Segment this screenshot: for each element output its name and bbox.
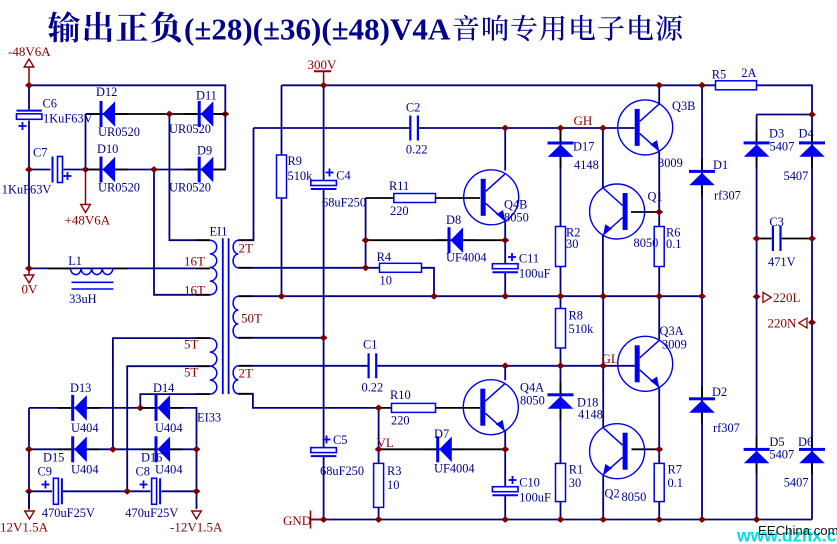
wire R11 corner xyxy=(365,198,367,268)
svg-text:R1: R1 xyxy=(569,463,583,477)
diode D6 xyxy=(784,435,825,490)
wire D12 col down xyxy=(169,114,209,240)
capacitor C11 xyxy=(492,252,550,281)
svg-text:D3: D3 xyxy=(769,127,784,141)
svg-text:C1: C1 xyxy=(363,338,377,352)
svg-text:10: 10 xyxy=(387,478,399,492)
wire D18 R1 col xyxy=(560,366,562,520)
transistor Q1 xyxy=(590,184,663,250)
svg-text:1KuF63V: 1KuF63V xyxy=(43,112,93,126)
svg-text:VL: VL xyxy=(377,435,394,450)
diode D13 xyxy=(58,381,99,435)
wire 2T2 bottom jog xyxy=(238,394,378,408)
svg-text:C2: C2 xyxy=(406,101,420,115)
svg-text:10: 10 xyxy=(380,274,392,288)
junction gnd-D2 xyxy=(698,516,706,523)
diode D1 xyxy=(689,158,741,203)
svg-text:EEChina.com: EEChina.com xyxy=(758,523,837,538)
svg-text:0.22: 0.22 xyxy=(406,143,428,157)
svg-text:100uF: 100uF xyxy=(519,491,551,505)
junction C3-left xyxy=(753,235,761,242)
diode D2 xyxy=(689,385,740,435)
wire Q1 collector col xyxy=(602,128,604,188)
power 12V1.5A xyxy=(0,491,49,534)
wire C3 row a xyxy=(757,238,772,240)
svg-text:5407: 5407 xyxy=(784,169,809,183)
svg-text:GL: GL xyxy=(602,351,619,366)
capacitor C6 xyxy=(17,97,93,131)
junction gnd-Q2E xyxy=(599,516,607,523)
svg-text:68uF250: 68uF250 xyxy=(322,196,366,210)
diode D9 xyxy=(169,144,226,195)
svg-text:(±28)(±36)(±48)V4A: (±28)(±36)(±48)V4A xyxy=(184,12,451,47)
diode D4 xyxy=(784,127,826,184)
junction R4-left xyxy=(362,264,370,271)
svg-text:300V: 300V xyxy=(308,57,338,72)
wire 2T bottom to R4 xyxy=(238,268,434,296)
junction bus-R4 xyxy=(430,293,438,300)
junction 50T-C4 xyxy=(320,334,328,341)
svg-text:5407: 5407 xyxy=(770,140,795,154)
diode D10 xyxy=(87,142,141,195)
wire GL row a xyxy=(238,365,367,367)
junction C9-C8 xyxy=(123,488,131,495)
svg-text:D11: D11 xyxy=(196,89,217,103)
wire Q1 base wire xyxy=(631,211,659,213)
wire top bus left xyxy=(29,85,225,169)
svg-text:R9: R9 xyxy=(288,154,302,168)
wire right D3 col xyxy=(756,115,758,520)
junction gnd-R1 xyxy=(557,516,565,523)
wire 5T bot stub xyxy=(140,394,210,408)
wire Q4A collector xyxy=(504,366,506,380)
svg-text:0.1: 0.1 xyxy=(668,476,684,490)
svg-text:33uH: 33uH xyxy=(69,292,97,306)
svg-text:C5: C5 xyxy=(333,433,347,447)
net flag 220L xyxy=(763,290,801,305)
wire C3 row b xyxy=(782,238,812,240)
svg-text:510k: 510k xyxy=(288,169,314,183)
junction VL-D7 xyxy=(501,446,509,453)
junction GL-D18 xyxy=(557,362,565,369)
junction GH-D17 xyxy=(557,125,565,132)
wire C7 D10 D9 row a xyxy=(29,169,51,171)
svg-text:2T: 2T xyxy=(239,366,254,381)
svg-text:510k: 510k xyxy=(569,322,595,336)
junction 300V xyxy=(320,82,328,89)
svg-text:100uF: 100uF xyxy=(519,267,551,281)
svg-text:220: 220 xyxy=(390,204,409,218)
diode D18 xyxy=(548,382,603,421)
junction bus-D1 xyxy=(698,293,706,300)
svg-text:D1: D1 xyxy=(713,158,728,172)
svg-text:C10: C10 xyxy=(519,476,540,490)
capacitor C7 xyxy=(2,146,72,197)
wire D10 col down xyxy=(154,170,210,295)
power 0V xyxy=(22,268,39,296)
svg-text:4148: 4148 xyxy=(578,408,603,422)
svg-text:Q2: Q2 xyxy=(605,487,620,501)
resistor R2 xyxy=(556,226,581,267)
diode D8 xyxy=(435,213,487,265)
svg-text:UR0520: UR0520 xyxy=(169,122,211,136)
transistor Q2 xyxy=(590,424,647,504)
svg-text:UF4004: UF4004 xyxy=(434,462,475,476)
junction D1/top xyxy=(698,82,706,89)
svg-text:D4: D4 xyxy=(799,127,814,141)
wire lower left rail xyxy=(28,408,30,509)
svg-text:rf307: rf307 xyxy=(713,421,740,435)
wire C4 C5 column b xyxy=(323,190,325,448)
svg-text:50T: 50T xyxy=(241,311,262,326)
junction 220N xyxy=(808,319,816,326)
resistor R6 xyxy=(654,226,681,267)
wire R3 column xyxy=(378,408,380,520)
wire 2T top col xyxy=(238,128,253,240)
wire Q2 emitter col xyxy=(602,475,604,520)
wire 50T bottom row xyxy=(238,337,323,339)
junction D8-right xyxy=(501,237,509,244)
title chinese part 2 xyxy=(453,15,478,41)
junction C3-right xyxy=(808,235,816,242)
svg-text:4148: 4148 xyxy=(574,158,599,172)
svg-text:U404: U404 xyxy=(71,421,99,435)
wire Q3A emitter col xyxy=(658,388,660,450)
wire R8 wire xyxy=(560,296,562,366)
svg-text:D17: D17 xyxy=(573,140,594,154)
transformer EI1 right winding 2T bottom xyxy=(233,366,252,394)
svg-text:-12V1.5A: -12V1.5A xyxy=(170,520,223,535)
diode D7 xyxy=(423,427,474,476)
wire GH row b xyxy=(419,127,635,129)
svg-text:0.1: 0.1 xyxy=(666,237,682,251)
wire right top link xyxy=(757,114,812,116)
transistor Q3B xyxy=(618,99,696,170)
transistor Q3A xyxy=(618,324,687,391)
junction bus-R9 xyxy=(278,293,286,300)
capacitor C8 xyxy=(125,465,178,521)
resistor R9 xyxy=(277,154,314,198)
junction gnd-D5 xyxy=(753,516,761,523)
junction GL-Q4A xyxy=(501,362,509,369)
diode D15 xyxy=(43,436,99,476)
svg-text:Q3A: Q3A xyxy=(660,324,684,338)
svg-text:L1: L1 xyxy=(68,254,82,268)
wire D8 row xyxy=(366,239,506,241)
wire R7 wires xyxy=(658,449,660,519)
wire D12 D11 row xyxy=(86,113,226,115)
power 300V xyxy=(308,57,338,85)
power +48V6A xyxy=(65,170,111,228)
wire mid bus xyxy=(238,295,702,297)
transformer EI1 right winding 2T top xyxy=(233,240,252,268)
wire Q2 collector col xyxy=(602,366,604,428)
svg-text:0V: 0V xyxy=(22,282,39,297)
power -12V1.5A xyxy=(170,511,223,535)
wire C9 row b xyxy=(63,490,151,492)
svg-text:2T: 2T xyxy=(239,241,254,256)
capacitor C3 xyxy=(768,215,796,269)
wire Q4A emitter col xyxy=(504,431,506,487)
svg-text:EI33: EI33 xyxy=(197,411,221,425)
inductor L1 xyxy=(48,254,128,306)
junction C8-right xyxy=(193,488,201,495)
svg-text:Q1: Q1 xyxy=(648,190,663,204)
svg-text:C7: C7 xyxy=(33,146,47,160)
svg-text:5407: 5407 xyxy=(784,476,809,490)
svg-text:R4: R4 xyxy=(377,250,391,264)
junction VL-left xyxy=(375,446,383,453)
diode D5 xyxy=(744,435,795,474)
svg-text:470uF25V: 470uF25V xyxy=(125,506,178,520)
wire C9 row a xyxy=(29,490,52,492)
wire D15 row xyxy=(29,448,197,450)
resistor R8 xyxy=(556,309,595,349)
junction 220L xyxy=(753,293,761,300)
transformer EI1 left winding 5T+5T xyxy=(196,338,217,394)
diode D17 xyxy=(548,131,599,173)
svg-text:220N: 220N xyxy=(768,316,798,331)
wire D17 column xyxy=(560,128,562,296)
svg-text:GH: GH xyxy=(574,113,593,128)
svg-text:8050: 8050 xyxy=(504,211,529,225)
wire D2 column xyxy=(701,296,703,519)
svg-text:16T: 16T xyxy=(184,283,205,298)
svg-text:220L: 220L xyxy=(773,290,801,305)
svg-text:D9: D9 xyxy=(197,144,212,158)
svg-text:EI1: EI1 xyxy=(210,225,228,239)
wire C9 row c xyxy=(162,490,197,492)
wire C4 C5 column a xyxy=(323,85,325,180)
svg-text:1KuF63V: 1KuF63V xyxy=(2,183,52,197)
svg-text:5T: 5T xyxy=(184,365,199,380)
junction Q1B-R6 xyxy=(655,209,663,216)
wire left rail upper xyxy=(28,85,30,109)
junction GL-Q2 xyxy=(599,362,607,369)
resistor R1 xyxy=(556,463,584,502)
junction gnd-C5 xyxy=(320,516,328,523)
wire D13 row xyxy=(29,408,197,449)
wire C7 D10 D9 row b xyxy=(64,169,226,171)
svg-text:R5: R5 xyxy=(712,68,726,82)
junction D12-D11 xyxy=(165,111,173,118)
svg-text:R10: R10 xyxy=(390,388,411,402)
svg-text:12V1.5A: 12V1.5A xyxy=(0,520,49,535)
svg-text:220: 220 xyxy=(391,414,410,428)
wire R11 row xyxy=(366,197,480,199)
svg-text:UR0520: UR0520 xyxy=(169,181,211,195)
svg-text:C4: C4 xyxy=(336,169,350,183)
wire GL drop col xyxy=(602,296,604,366)
wire left rail lower xyxy=(28,121,30,269)
diode D3 xyxy=(744,127,795,168)
svg-text:D7: D7 xyxy=(434,427,449,441)
junction GH-Q4B xyxy=(501,125,509,132)
wire GND bus xyxy=(311,519,812,521)
svg-text:D10: D10 xyxy=(97,142,118,156)
junction Q2B-R7 xyxy=(655,446,663,453)
svg-text:471V: 471V xyxy=(768,255,796,269)
junction -48V/top xyxy=(25,82,33,89)
junction gnd-R3 xyxy=(375,516,383,523)
wire C11 lower lead xyxy=(504,273,506,296)
junction C7-D10 xyxy=(82,166,90,173)
junction D15-left xyxy=(25,446,33,453)
transformer EI1 right winding 50T xyxy=(233,296,252,338)
junction gnd-R7 xyxy=(655,516,663,523)
wire GL row b xyxy=(377,365,634,367)
svg-text:U404: U404 xyxy=(71,463,99,477)
junction gnd-C10 xyxy=(501,516,509,523)
svg-text:D12: D12 xyxy=(96,85,117,99)
svg-text:470uF25V: 470uF25V xyxy=(42,506,95,520)
svg-text:8050: 8050 xyxy=(520,394,545,408)
diode D14 xyxy=(142,381,183,435)
svg-text:68uF250: 68uF250 xyxy=(320,464,364,478)
transistor Q4A xyxy=(463,380,544,435)
svg-text:R7: R7 xyxy=(668,463,682,477)
svg-text:8050: 8050 xyxy=(622,490,647,504)
svg-text:30: 30 xyxy=(566,237,578,251)
svg-text:R11: R11 xyxy=(389,179,409,193)
capacitor C10 xyxy=(492,476,551,505)
svg-text:C8: C8 xyxy=(136,465,150,479)
wire Q1 emitter col xyxy=(602,236,604,297)
wire C4 C5 column c xyxy=(323,457,325,520)
wire L1 row xyxy=(29,267,210,269)
resistor R3 xyxy=(374,463,402,507)
junction D16-right xyxy=(193,446,201,453)
diode D16 xyxy=(141,436,183,476)
svg-text:C3: C3 xyxy=(769,215,783,229)
svg-text:U404: U404 xyxy=(155,463,183,477)
svg-text:D14: D14 xyxy=(153,381,174,395)
junction C9-left xyxy=(25,488,33,495)
transformer EI1 left winding 16T+16T xyxy=(196,240,217,295)
junction right-link xyxy=(808,111,816,118)
wire top bus right xyxy=(282,85,813,519)
wire Q4B emitter col xyxy=(504,221,506,264)
resistor R5 xyxy=(712,66,757,90)
svg-text:GND: GND xyxy=(283,513,311,528)
svg-text:+48V6A: +48V6A xyxy=(65,213,111,228)
junction Q3B-C/top xyxy=(655,82,663,89)
svg-text:Q4A: Q4A xyxy=(520,381,544,395)
svg-text:3009: 3009 xyxy=(658,156,683,170)
junction R10-left xyxy=(375,405,383,412)
wire neg12 col xyxy=(196,449,198,509)
resistor R10 xyxy=(390,388,436,428)
resistor R11 xyxy=(389,179,436,218)
transistor Q4B xyxy=(464,170,529,225)
svg-text:0.22: 0.22 xyxy=(362,381,384,395)
svg-text:5T: 5T xyxy=(184,337,199,352)
transformer EI1 core xyxy=(223,238,229,394)
resistor R7 xyxy=(654,463,683,502)
svg-text:UR0520: UR0520 xyxy=(98,125,140,139)
net flag 220N xyxy=(768,316,808,331)
resistor R4 xyxy=(377,250,422,288)
wire D1 column xyxy=(701,85,703,296)
junction bus-C11 xyxy=(501,293,509,300)
wire 5T top stub xyxy=(113,338,210,449)
svg-text:D2: D2 xyxy=(712,385,727,399)
wire Q3B emitter col xyxy=(658,151,660,212)
svg-text:-48V6A: -48V6A xyxy=(8,44,51,59)
svg-text:C6: C6 xyxy=(43,97,57,111)
diode D11 xyxy=(169,89,226,137)
svg-text:16T: 16T xyxy=(184,254,205,269)
junction GH-Q1 xyxy=(599,125,607,132)
svg-text:D6: D6 xyxy=(798,435,813,449)
svg-text:3009: 3009 xyxy=(662,338,687,352)
junction D10-D9 xyxy=(150,166,158,173)
wire R9 column xyxy=(281,85,283,296)
svg-text:rf307: rf307 xyxy=(714,189,741,203)
wire R10 row xyxy=(379,407,480,409)
junction D13-D14 xyxy=(136,405,144,412)
svg-text:D8: D8 xyxy=(446,213,461,227)
junction 0V xyxy=(25,265,33,272)
svg-text:C9: C9 xyxy=(38,465,52,479)
svg-text:D13: D13 xyxy=(70,381,91,395)
svg-text:30: 30 xyxy=(569,476,581,490)
wire Q3B collector col xyxy=(658,85,660,103)
junction rail-C7 xyxy=(25,166,33,173)
svg-text:Q4B: Q4B xyxy=(504,198,527,212)
svg-text:2A: 2A xyxy=(741,66,756,80)
capacitor C1 xyxy=(362,338,384,395)
wire Q2 base wire xyxy=(632,448,660,450)
junction bus-Q1E xyxy=(599,293,607,300)
wire C10 lower lead xyxy=(504,496,506,520)
wire R6 wires xyxy=(658,212,660,296)
svg-text:D15: D15 xyxy=(43,451,64,465)
capacitor C2 xyxy=(406,101,428,157)
wire 5T mid stub xyxy=(127,366,210,491)
svg-text:Q3B: Q3B xyxy=(672,99,695,113)
junction D8-left xyxy=(362,237,370,244)
power GND xyxy=(283,511,323,529)
capacitor C4 xyxy=(311,169,366,210)
junction bus-R6 xyxy=(655,293,663,300)
title chinese part 1 xyxy=(48,11,80,42)
junction D11-right xyxy=(221,111,229,118)
wire GH row a xyxy=(254,127,410,129)
capacitor C5 xyxy=(311,433,364,478)
junction D15-D16 xyxy=(109,446,117,453)
svg-text:8050: 8050 xyxy=(634,236,659,250)
svg-text:R8: R8 xyxy=(569,309,583,323)
wire Q4B collector xyxy=(504,128,506,171)
wire VL row xyxy=(379,448,506,450)
svg-text:U404: U404 xyxy=(155,421,183,435)
power -48V6A xyxy=(8,44,51,85)
svg-text:UF4004: UF4004 xyxy=(446,251,487,265)
svg-text:C11: C11 xyxy=(519,252,539,266)
svg-text:R3: R3 xyxy=(387,464,401,478)
diode D12 xyxy=(87,85,141,139)
wire Q3A collector col xyxy=(658,296,660,340)
capacitor C9 xyxy=(38,465,95,521)
svg-text:UR0520: UR0520 xyxy=(98,181,140,195)
junction bus-R2 xyxy=(557,293,565,300)
wire bridge left vertical xyxy=(85,114,87,172)
svg-text:5407: 5407 xyxy=(769,448,794,462)
